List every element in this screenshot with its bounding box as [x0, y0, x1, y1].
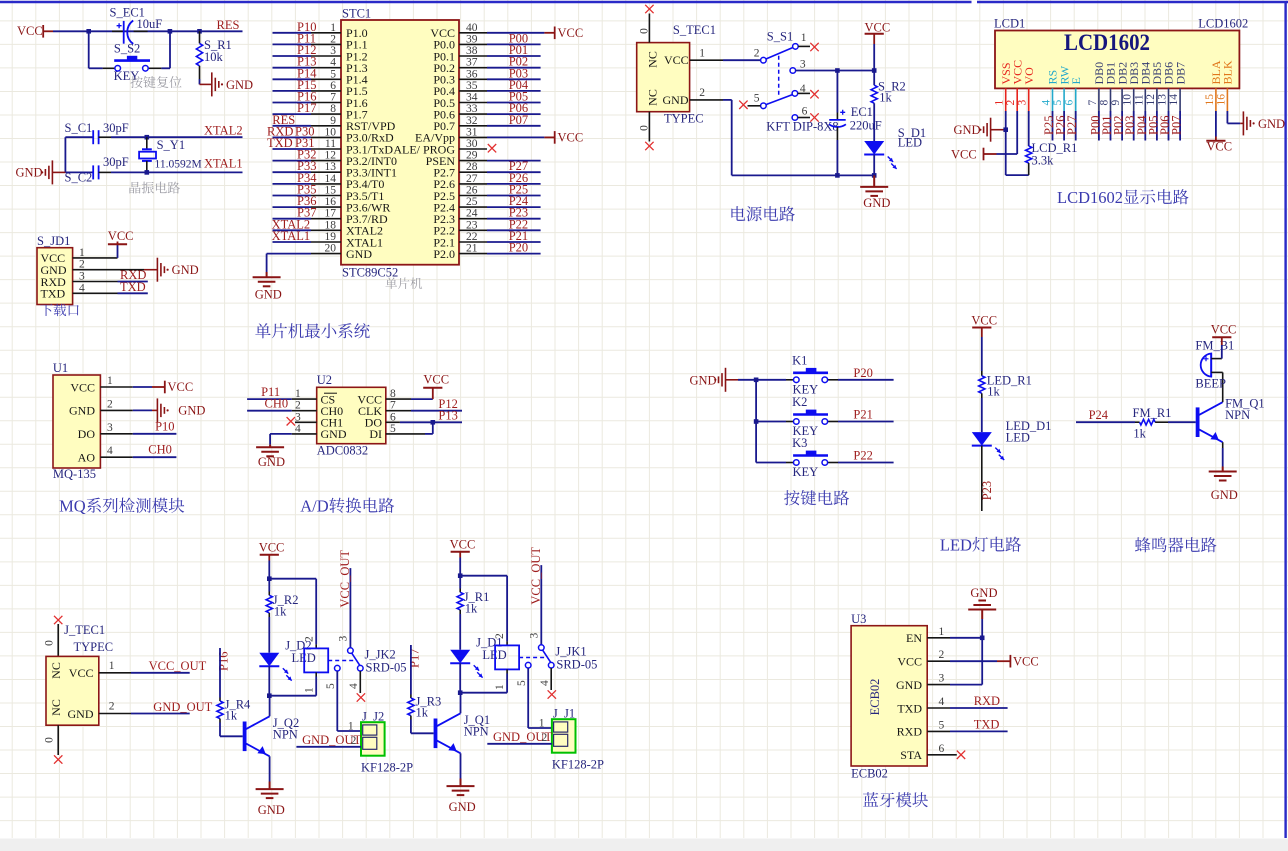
- wire BLK to GND: [1226, 111, 1228, 123]
- svg-text:30pF: 30pF: [103, 121, 129, 135]
- U2 pin2 wire CH0: [292, 410, 317, 412]
- svg-text:VO: VO: [1022, 67, 1036, 85]
- svg-text:BEEP: BEEP: [1195, 377, 1226, 391]
- svg-text:1: 1: [539, 718, 545, 730]
- wire VCC to LED_R1: [981, 337, 983, 371]
- svg-text:DB7: DB7: [1173, 62, 1187, 85]
- svg-text:E: E: [1069, 77, 1083, 84]
- junction K1: [754, 378, 759, 383]
- svg-text:GND: GND: [1258, 117, 1285, 131]
- svg-text:NC: NC: [646, 51, 660, 68]
- svg-text:K3: K3: [792, 436, 807, 450]
- svg-text:TXD: TXD: [267, 136, 293, 150]
- svg-text:6: 6: [1064, 100, 1076, 106]
- svg-text:3: 3: [337, 636, 349, 642]
- svg-text:GND: GND: [863, 196, 890, 210]
- svg-text:MQ: MQ: [59, 497, 86, 516]
- svg-text:TXD: TXD: [897, 701, 922, 715]
- LED S_D1: [864, 141, 884, 155]
- svg-text:1k: 1k: [274, 605, 287, 619]
- keys common rail: [755, 380, 757, 463]
- svg-text:VCC: VCC: [1206, 140, 1232, 154]
- U2 pin1 wire P11: [292, 398, 317, 400]
- svg-text:P17: P17: [297, 101, 316, 115]
- svg-text:P24: P24: [1089, 408, 1109, 422]
- svg-text:2: 2: [303, 636, 315, 642]
- svg-text:K1: K1: [792, 353, 807, 367]
- svg-text:5: 5: [939, 719, 945, 731]
- svg-text:TXD: TXD: [120, 280, 146, 294]
- junction crystal top: [145, 135, 150, 140]
- switch S_S2 KEY: [88, 31, 90, 68]
- junction LED bottom: [872, 173, 877, 178]
- svg-text:P21: P21: [853, 408, 872, 422]
- U2 pin7 wire P12: [386, 410, 411, 412]
- annotation 晶振电路: [129, 182, 179, 194]
- svg-text:VCC: VCC: [70, 380, 95, 394]
- svg-text:VCC: VCC: [951, 148, 977, 162]
- svg-text:VCC: VCC: [558, 26, 584, 40]
- svg-text:11: 11: [1133, 94, 1145, 105]
- no-connect X pin30: [488, 144, 496, 152]
- switch S_S1 gang dashed link: [778, 56, 780, 97]
- svg-text:VCC: VCC: [664, 53, 689, 67]
- wire GND_OUT to J_J2: [296, 746, 361, 748]
- svg-text:GND: GND: [690, 373, 717, 387]
- svg-text:S_S1: S_S1: [767, 30, 793, 44]
- svg-text:P10: P10: [155, 420, 174, 434]
- svg-text:AO: AO: [78, 451, 96, 465]
- wire/net label P04: [1144, 111, 1146, 141]
- junction J_D1 bottom: [458, 690, 463, 695]
- svg-text:0: 0: [639, 125, 651, 131]
- svg-text:GND: GND: [346, 247, 372, 261]
- ground GND (J_Q2): [256, 789, 284, 798]
- svg-text:12: 12: [1145, 94, 1157, 106]
- svg-text:14: 14: [1168, 94, 1180, 106]
- svg-text:BLK: BLK: [1221, 60, 1235, 84]
- svg-text:220uF: 220uF: [850, 119, 882, 133]
- power port VCC (LCD): [984, 153, 997, 155]
- switch pin 6: [792, 115, 798, 121]
- wire collector to buzzer: [1222, 372, 1224, 402]
- svg-text:VCC: VCC: [971, 314, 997, 328]
- svg-text:LCD1602: LCD1602: [1064, 30, 1150, 55]
- svg-text:VCC: VCC: [108, 229, 134, 243]
- svg-text:KFT DIP-8X8: KFT DIP-8X8: [766, 120, 838, 134]
- junction J_D2 bottom: [267, 693, 272, 698]
- svg-text:2: 2: [542, 732, 548, 744]
- svg-text:GND_OUT: GND_OUT: [153, 700, 212, 714]
- ground GND (U1): [157, 398, 164, 422]
- pin 2 wire to GND: [73, 269, 144, 271]
- svg-text:VCC: VCC: [259, 541, 285, 555]
- transistor J_Q1 NPN: [434, 719, 438, 749]
- U3 pin5 RXD wire TXD: [927, 730, 950, 732]
- LED J_D1: [450, 650, 470, 664]
- svg-text:GND: GND: [258, 455, 285, 469]
- svg-text:LCD1602: LCD1602: [1057, 188, 1123, 207]
- svg-text:VCC: VCC: [450, 538, 476, 552]
- svg-text:VCC: VCC: [17, 24, 43, 38]
- svg-text:2: 2: [939, 649, 945, 661]
- svg-text:NPN: NPN: [464, 725, 489, 739]
- wire/net label P02: [1121, 111, 1123, 141]
- LED LED_D1: [972, 432, 992, 446]
- svg-text:1k: 1k: [1133, 427, 1146, 441]
- svg-text:MQ-135: MQ-135: [53, 467, 96, 481]
- svg-text:LCD1602: LCD1602: [1198, 17, 1248, 31]
- wire EN rail to GND (top): [981, 619, 983, 638]
- wire/net label P26: [1063, 111, 1065, 141]
- resistor J_R1 1k: [459, 576, 461, 589]
- relay coil J_JK2: [315, 579, 317, 645]
- svg-text:GND: GND: [954, 123, 981, 137]
- wire VSS to GND: [1005, 111, 1007, 130]
- svg-text:VCC_OUT: VCC_OUT: [529, 547, 543, 605]
- svg-text:P16: P16: [217, 652, 231, 671]
- svg-text:GND: GND: [896, 678, 922, 692]
- svg-text:STA: STA: [900, 748, 922, 762]
- relay coil J_JK1: [506, 576, 508, 642]
- svg-text:P27: P27: [1065, 116, 1079, 135]
- ground GND (LCD left): [984, 118, 991, 142]
- svg-text:CH0: CH0: [148, 443, 172, 457]
- U3 pin2 VCC wire: [927, 660, 950, 662]
- svg-text:3.3k: 3.3k: [1032, 154, 1055, 168]
- svg-text:STC1: STC1: [342, 7, 371, 21]
- ground GND (U2): [269, 445, 271, 448]
- wire/net label P03: [1133, 111, 1135, 141]
- svg-text:1: 1: [494, 684, 506, 690]
- svg-text:GND: GND: [321, 427, 347, 441]
- power port VCC (MCU pin 31): [544, 136, 554, 138]
- svg-text:NPN: NPN: [1225, 408, 1250, 422]
- svg-text:S_JD1: S_JD1: [37, 234, 70, 248]
- svg-text:10k: 10k: [204, 50, 224, 64]
- power port VCC (U2): [432, 388, 434, 399]
- annotation 下载口: [40, 304, 79, 316]
- resistor FM_R1 1k: [1135, 421, 1140, 423]
- svg-text:VCC: VCC: [168, 380, 194, 394]
- svg-text:30pF: 30pF: [103, 155, 129, 169]
- svg-text:GND: GND: [172, 263, 199, 277]
- svg-text:1: 1: [994, 100, 1006, 106]
- svg-text:GND: GND: [663, 93, 689, 107]
- junction K2: [754, 419, 759, 424]
- svg-text:J_TEC1: J_TEC1: [64, 623, 105, 637]
- power port VCC (U1): [152, 386, 165, 388]
- svg-text:LED: LED: [1006, 431, 1030, 445]
- U1 pin4 wire CH0: [100, 456, 132, 458]
- svg-text:KEY: KEY: [114, 69, 140, 83]
- annotation 单片机: [385, 278, 422, 290]
- junction EC1 bottom: [835, 173, 840, 178]
- svg-text:1: 1: [699, 48, 705, 60]
- ground GND (buzzer): [1209, 472, 1237, 481]
- svg-text:5: 5: [325, 683, 337, 689]
- junction VSS: [1003, 127, 1008, 132]
- svg-text:GND: GND: [16, 166, 43, 180]
- U2 pin5 wire DI up: [386, 433, 425, 435]
- junction EC1 top: [835, 68, 840, 73]
- svg-text:3: 3: [800, 59, 806, 71]
- wire emitter J_Q2 to GND: [269, 756, 271, 781]
- svg-text:J_JK1: J_JK1: [555, 645, 586, 659]
- wire/net label P25: [1052, 111, 1054, 141]
- svg-text:GND: GND: [970, 586, 997, 600]
- wire emitter to GND: [1222, 442, 1224, 448]
- wire/net label P00: [1098, 111, 1100, 141]
- svg-text:2: 2: [699, 87, 705, 99]
- title 按键电路: [784, 490, 849, 505]
- svg-text:4: 4: [348, 683, 360, 689]
- title 单片机最小系统: [255, 323, 370, 338]
- capacitor S_EC1 10uF: [112, 30, 124, 32]
- svg-text:DO: DO: [78, 427, 96, 441]
- ground GND (MCU): [253, 277, 281, 286]
- svg-text:3: 3: [107, 422, 113, 434]
- svg-text:9: 9: [1110, 100, 1122, 106]
- net label P24 wire: [1076, 421, 1135, 423]
- resistor S_R2 1k: [873, 71, 875, 86]
- svg-text:10uF: 10uF: [137, 17, 163, 31]
- svg-text:1: 1: [939, 626, 945, 638]
- svg-text:GND: GND: [178, 404, 205, 418]
- svg-text:KEY: KEY: [793, 465, 819, 479]
- junction at S_EC1 right: [168, 29, 173, 34]
- svg-text:VCC: VCC: [897, 655, 922, 669]
- U2 pin6 wire P13: [386, 421, 400, 423]
- wire relay pin5 to J_J1: [527, 668, 529, 728]
- title 蜂鸣器电路: [1135, 537, 1217, 552]
- svg-text:GND: GND: [255, 288, 282, 302]
- svg-text:5: 5: [754, 93, 760, 105]
- wire BLA to VCC: [1215, 111, 1217, 137]
- ground GND (reset): [200, 83, 212, 85]
- J_TEC1 bottom pin: [57, 725, 59, 755]
- svg-text:TYPEC: TYPEC: [664, 112, 704, 126]
- wire/net label P27: [1075, 111, 1077, 141]
- svg-text:GND: GND: [226, 78, 253, 92]
- svg-text:A/D: A/D: [300, 497, 329, 516]
- svg-text:SRD-05: SRD-05: [366, 661, 407, 675]
- svg-text:FM_B1: FM_B1: [1195, 339, 1234, 353]
- ground GND (LCD right): [1243, 111, 1250, 135]
- wire/net label P07: [1179, 111, 1181, 141]
- svg-text:GND: GND: [449, 800, 476, 814]
- pin 1 wire to VCC: [73, 257, 118, 259]
- junction EN/GND rail: [980, 636, 985, 641]
- svg-text:2: 2: [107, 398, 113, 410]
- svg-text:1: 1: [109, 660, 115, 672]
- svg-text:2: 2: [109, 701, 115, 713]
- U3 pin6 STA no-connect: [927, 754, 957, 756]
- svg-text:P17: P17: [407, 649, 421, 668]
- resistor LCD_R1 3.3k: [1028, 111, 1030, 146]
- svg-text:6: 6: [939, 743, 945, 755]
- svg-text:LED: LED: [898, 136, 922, 150]
- svg-text:0: 0: [44, 737, 56, 743]
- svg-text:S_S2: S_S2: [114, 42, 140, 56]
- svg-text:11.0592M: 11.0592M: [155, 159, 202, 171]
- transistor FM_Q1 NPN: [1196, 407, 1200, 437]
- U2 pin8 wire to VCC: [386, 398, 411, 400]
- wire collector J_Q2: [269, 696, 271, 717]
- svg-text:5: 5: [516, 680, 528, 686]
- svg-text:P22: P22: [853, 449, 872, 463]
- svg-text:VCC_OUT: VCC_OUT: [149, 659, 207, 673]
- switch K2 / net P21: [756, 421, 786, 423]
- svg-text:J_JK2: J_JK2: [365, 648, 396, 662]
- crystal S_Y1 11.0592M: [146, 137, 148, 149]
- title 蓝牙模块: [863, 792, 928, 807]
- svg-text:NPN: NPN: [273, 728, 298, 742]
- wire GND_OUT to J_J1: [487, 743, 552, 745]
- junction P13/DI: [431, 420, 436, 425]
- svg-text:GND: GND: [1211, 488, 1238, 502]
- svg-text:P20: P20: [853, 366, 872, 380]
- switch lower blade pins 5-4: [761, 103, 767, 109]
- junction crystal bottom: [145, 170, 150, 175]
- svg-text:1: 1: [348, 721, 354, 733]
- sheet right border: [1284, 2, 1286, 838]
- svg-text:0: 0: [639, 28, 651, 34]
- wire XTAL1: [147, 171, 243, 173]
- svg-text:TXD: TXD: [41, 287, 66, 301]
- svg-text:P07: P07: [509, 113, 528, 127]
- power port VCC (MCU pin 40): [544, 32, 554, 34]
- svg-text:FM_R1: FM_R1: [1133, 406, 1172, 420]
- svg-text:VCC: VCC: [865, 21, 891, 35]
- svg-text:NC: NC: [49, 699, 63, 716]
- U3 pin1 EN wire: [927, 637, 950, 639]
- LCD1602 body: [995, 31, 1239, 89]
- wire emitter J_Q1 to GND: [460, 753, 462, 778]
- pin 3 wire RXD: [73, 281, 118, 283]
- annotation 按键复位: [130, 76, 181, 88]
- svg-text:1: 1: [801, 32, 807, 44]
- svg-text:GND: GND: [69, 404, 95, 418]
- power port VCC (S_JD1): [117, 245, 119, 258]
- svg-text:VCC_OUT: VCC_OUT: [338, 550, 352, 608]
- U1 pin3 wire P10: [100, 433, 132, 435]
- svg-text:U2: U2: [317, 373, 332, 387]
- svg-text:2: 2: [754, 48, 760, 60]
- wire LED to P23: [981, 446, 983, 511]
- svg-text:GND: GND: [68, 707, 94, 721]
- svg-text:STC89C52: STC89C52: [342, 266, 398, 280]
- U2 pin4 wire to GND: [292, 433, 317, 435]
- svg-text:S_Y1: S_Y1: [157, 138, 185, 152]
- wire/net label P01: [1110, 111, 1112, 141]
- svg-text:2: 2: [494, 633, 506, 639]
- svg-text:4: 4: [1041, 100, 1053, 106]
- svg-text:VCC: VCC: [69, 666, 94, 680]
- svg-text:VCC: VCC: [1211, 323, 1237, 337]
- wire XTAL2: [147, 136, 243, 138]
- bottom scrollbar strip: [0, 839, 1288, 851]
- ground GND (U3): [968, 601, 996, 610]
- svg-text:KF128-2P: KF128-2P: [361, 761, 413, 775]
- svg-text:P07: P07: [1170, 116, 1184, 135]
- svg-text:1: 1: [107, 375, 113, 387]
- svg-text:8: 8: [1099, 100, 1111, 106]
- svg-text:CH0: CH0: [265, 397, 289, 411]
- resistor LED_R1 1k: [979, 376, 985, 394]
- U3 pin4 TXD wire RXD: [927, 707, 950, 709]
- wire collector J_Q1: [460, 693, 462, 714]
- wire/net label P05: [1156, 111, 1158, 141]
- svg-text:1k: 1k: [465, 602, 478, 616]
- svg-text:XTAL2: XTAL2: [204, 124, 243, 138]
- svg-text:16: 16: [1215, 94, 1227, 106]
- svg-text:NC: NC: [646, 89, 660, 106]
- svg-text:RXD: RXD: [974, 694, 1000, 708]
- sheet top border: [0, 1, 972, 3]
- svg-text:10: 10: [1122, 94, 1134, 106]
- svg-text:EN: EN: [906, 631, 922, 645]
- svg-text:1k: 1k: [879, 91, 892, 105]
- pin 4 wire TXD: [73, 292, 118, 294]
- svg-text:15: 15: [1204, 94, 1216, 106]
- ground GND (power circuit): [873, 175, 875, 187]
- svg-text:2: 2: [1005, 100, 1017, 106]
- svg-text:13: 13: [1157, 94, 1169, 106]
- wire VCC pin2: [1016, 111, 1018, 154]
- junction at S_EC1 left: [86, 29, 91, 34]
- svg-text:P20: P20: [509, 241, 528, 255]
- transistor J_Q2 NPN: [243, 722, 247, 752]
- svg-text:RXD: RXD: [897, 725, 923, 739]
- svg-text:4: 4: [539, 680, 551, 686]
- U1 pin1 wire to VCC: [100, 386, 132, 388]
- capacitor EC1 220uF: [836, 71, 838, 113]
- svg-text:LED: LED: [940, 536, 972, 555]
- svg-text:P23: P23: [980, 481, 994, 500]
- svg-text:LCD1: LCD1: [994, 17, 1025, 31]
- svg-text:4: 4: [939, 696, 945, 708]
- pin 0 bottom (S_TEC1): [648, 112, 650, 142]
- svg-text:TYPEC: TYPEC: [74, 640, 114, 654]
- wire cap left rail: [64, 137, 66, 172]
- power port VCC (backlight): [1206, 140, 1225, 142]
- connector J_TEC1 TYPEC: [54, 616, 62, 624]
- LED J_D2: [259, 653, 279, 667]
- switch K3 / net P22: [756, 462, 786, 464]
- svg-text:1k: 1k: [225, 709, 238, 723]
- wire VSS down to resistor bottom: [1005, 130, 1007, 175]
- U2 pin3 no-connect: [295, 421, 317, 423]
- svg-text:3: 3: [1017, 100, 1029, 106]
- svg-text:S_C1: S_C1: [65, 121, 93, 135]
- svg-text:S_TEC1: S_TEC1: [673, 23, 716, 37]
- svg-text:5: 5: [1052, 100, 1064, 106]
- ground GND (J_Q1): [447, 786, 475, 795]
- svg-text:GND: GND: [258, 803, 285, 817]
- svg-text:VCC: VCC: [558, 130, 584, 144]
- junction J_R1 top: [460, 575, 507, 577]
- switch pin 3 wire: [790, 68, 796, 74]
- U3 pin3 GND wire: [927, 684, 950, 686]
- svg-text:0: 0: [44, 640, 56, 646]
- svg-text:KF128-2P: KF128-2P: [552, 758, 604, 772]
- svg-text:7: 7: [1087, 100, 1099, 106]
- junction J_R2 top: [269, 578, 316, 580]
- svg-text:XTAL1: XTAL1: [272, 229, 311, 243]
- svg-text:4: 4: [107, 445, 113, 457]
- svg-text:ADC0832: ADC0832: [317, 444, 368, 458]
